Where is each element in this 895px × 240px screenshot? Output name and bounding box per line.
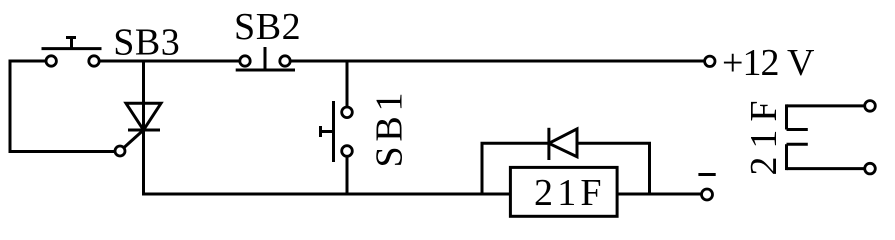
- wire gate lead bottom-left: [9, 150, 116, 153]
- wire flyback branch left vertical: [481, 143, 484, 194]
- wire flyback branch top right segment: [577, 142, 651, 145]
- label SB2: [234, 6, 301, 48]
- wire top rail from SB2 to +12V terminal: [290, 60, 704, 63]
- wire bottom rail: [142, 193, 702, 196]
- minus sign: [698, 173, 715, 176]
- label +12 V: [722, 42, 815, 84]
- svg-text:SB1: SB1: [369, 93, 411, 168]
- wire SB1 branch upper: [346, 61, 349, 107]
- thyristor V (triangle): [126, 103, 161, 130]
- svg-text:21F: 21F: [534, 172, 602, 214]
- pushbutton SB2 (normally closed): [236, 47, 295, 70]
- terminal +12V: [705, 56, 715, 66]
- label 21F at contact (rotated): [743, 101, 785, 176]
- label SB1 (rotated): [369, 93, 411, 168]
- svg-text:SB2: SB2: [234, 6, 301, 48]
- svg-text:+12 V: +12 V: [722, 42, 815, 84]
- diode VD triangle: [549, 129, 577, 157]
- wire flyback branch top left segment: [481, 142, 549, 145]
- wire left rail vertical: [9, 60, 12, 154]
- wire top-left from left rail to SB3: [9, 60, 47, 63]
- svg-text:21F: 21F: [743, 101, 785, 176]
- wire between SB3 and SB2: [99, 60, 240, 63]
- svg-text:SB3: SB3: [113, 22, 180, 64]
- wire SB1 branch lower: [346, 156, 349, 194]
- thyristor cathode bar: [128, 129, 160, 132]
- wire gate diagonal to thyristor cathode: [124, 130, 144, 148]
- label SB3: [113, 22, 180, 64]
- relay contact 21F top terminal circle: [865, 101, 876, 112]
- pushbutton SB1 (normally open, vertical): [321, 101, 353, 162]
- relay contact 21F bottom vertical: [785, 144, 788, 170]
- diode VD (flyback) cathode bar: [547, 128, 550, 160]
- wire flyback branch right vertical: [648, 143, 651, 194]
- relay contact 21F top vertical: [785, 104, 788, 129]
- pushbutton SB3 (normally closed): [42, 37, 102, 67]
- terminal minus circle: [702, 189, 713, 200]
- wire thyristor cathode to bottom rail: [142, 130, 145, 196]
- wire thyristor anode from top rail: [142, 61, 145, 130]
- label 21F in coil box: [534, 172, 602, 214]
- relay contact 21F bottom terminal circle: [865, 163, 876, 174]
- relay contact 21F top wire: [787, 104, 865, 107]
- relay contact 21F bottom tick: [787, 143, 808, 146]
- gate terminal circle of thyristor: [115, 146, 125, 156]
- relay contact 21F bottom wire: [787, 167, 865, 170]
- relay contact 21F top tick: [787, 128, 808, 131]
- relay coil 21F (box): [510, 167, 617, 216]
